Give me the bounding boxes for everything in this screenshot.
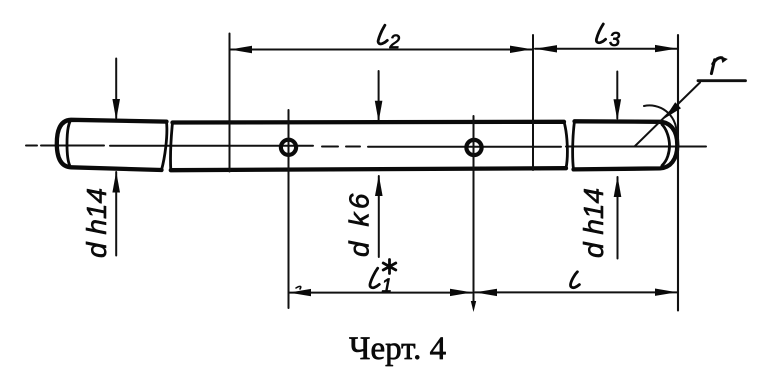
diameter arrow middle bottom head bbox=[375, 175, 383, 196]
l3 right arrowhead bbox=[655, 45, 677, 52]
label l1 asterisk bbox=[383, 260, 396, 274]
l right arrowhead bbox=[655, 289, 677, 296]
label r bbox=[711, 58, 722, 74]
middle section right break edge bbox=[564, 122, 567, 168]
extension line right bbox=[677, 35, 679, 311]
dimension line l2 bbox=[230, 49, 532, 51]
label l3 script ell bbox=[596, 24, 605, 43]
right section break edge bbox=[573, 121, 575, 169]
r leader arrowhead bbox=[665, 102, 682, 118]
diameter arrow left bottom line bbox=[115, 172, 117, 256]
svg-text:Черт. 4: Черт. 4 bbox=[349, 331, 446, 367]
label l script ell bbox=[571, 272, 580, 288]
hole 2 bbox=[466, 140, 481, 155]
diameter arrow right top line bbox=[616, 72, 618, 119]
l1* right arrowhead bbox=[450, 289, 472, 296]
dimension line l bbox=[475, 291, 677, 293]
diameter arrow middle top head bbox=[375, 101, 383, 122]
l left arrowhead bbox=[475, 289, 497, 296]
shaft right section outline bbox=[574, 121, 678, 169]
shaft middle section outline bbox=[171, 122, 566, 170]
svg-text:1: 1 bbox=[382, 276, 393, 297]
diameter arrow left top head bbox=[112, 99, 120, 120]
diameter arrow right bottom head bbox=[614, 176, 622, 197]
left cap inner chord bbox=[67, 122, 70, 167]
hole 2 axis bottom arrow bbox=[471, 301, 476, 312]
svg-text:d h14: d h14 bbox=[578, 188, 609, 258]
l3 left arrowhead bbox=[535, 45, 557, 52]
extension line l2 left bbox=[229, 34, 231, 172]
extension line l2/l3 junction bbox=[532, 35, 534, 170]
r underline bbox=[698, 79, 746, 82]
hole 2 axis line bbox=[473, 116, 475, 306]
label l2 script ell bbox=[378, 25, 387, 44]
svg-text:3: 3 bbox=[609, 29, 620, 51]
diameter arrow middle top line bbox=[378, 71, 380, 120]
l2 right arrowhead bbox=[510, 46, 532, 53]
svg-text:d h14: d h14 bbox=[81, 188, 112, 258]
l1* left arrowhead bbox=[289, 289, 311, 296]
diameter arrow left bottom head bbox=[112, 172, 120, 193]
shaft left section break edge bbox=[162, 122, 167, 170]
middle section left break edge bbox=[171, 123, 173, 171]
center line (axis) bbox=[26, 146, 706, 147]
diameter arrow middle bottom line bbox=[378, 176, 380, 257]
l1* left curl bbox=[296, 286, 301, 289]
l2 left arrowhead bbox=[230, 46, 252, 53]
dimension line l3 bbox=[535, 48, 677, 50]
shaft left section outline bbox=[57, 120, 167, 170]
diameter arrow right bottom line bbox=[617, 177, 619, 259]
r radius arc bbox=[644, 105, 677, 131]
hole 1 axis line bbox=[288, 110, 290, 308]
dimension line l1* bbox=[289, 292, 472, 294]
svg-text:2: 2 bbox=[389, 32, 401, 53]
svg-text:d k6: d k6 bbox=[344, 190, 375, 257]
hole 1 bbox=[281, 140, 296, 155]
diameter arrow left top line bbox=[115, 59, 117, 119]
label l1* script ell bbox=[370, 268, 379, 288]
right cap inner arc bbox=[662, 125, 670, 166]
r leader line bbox=[635, 83, 700, 147]
diameter arrow right top head bbox=[614, 99, 622, 120]
